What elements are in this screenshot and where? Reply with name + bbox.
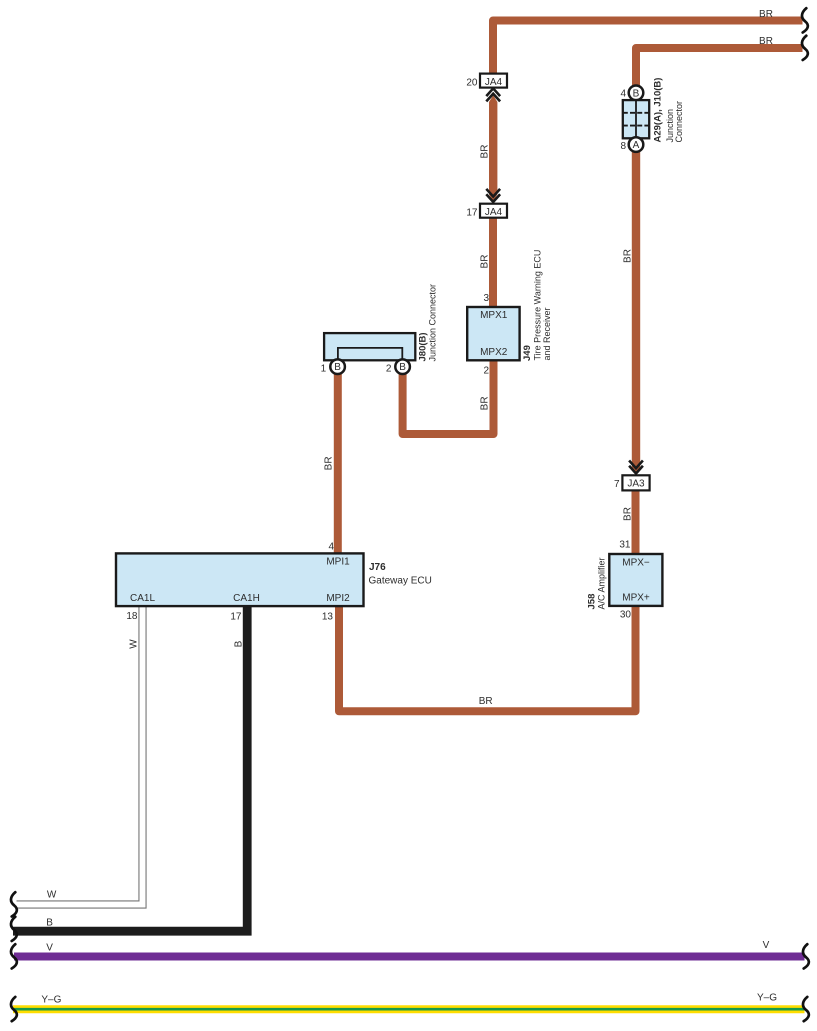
svg-text:BR: BR (759, 9, 773, 20)
svg-text:A29(A), J10(B): A29(A), J10(B) (653, 78, 664, 143)
svg-text:31: 31 (619, 540, 631, 551)
svg-text:4: 4 (328, 542, 334, 553)
svg-text:B: B (233, 640, 244, 647)
svg-text:7: 7 (614, 479, 620, 490)
svg-text:Connector: Connector (674, 101, 684, 143)
wire BR from JA4-17 to J49 pin 3 (489, 216, 497, 308)
break symbol right V (803, 944, 809, 968)
svg-text:CA1L: CA1L (130, 593, 155, 604)
svg-text:W: W (47, 890, 57, 901)
svg-text:JA3: JA3 (627, 479, 645, 490)
svg-text:18: 18 (126, 611, 138, 622)
svg-text:1: 1 (321, 363, 327, 374)
svg-text:Gateway ECU: Gateway ECU (369, 576, 432, 587)
terminal 1 circled B (330, 359, 345, 374)
svg-text:Tire Pressure Warning ECU: Tire Pressure Warning ECU (533, 250, 543, 361)
svg-text:B: B (633, 88, 640, 99)
svg-text:V: V (763, 940, 770, 951)
svg-text:J76: J76 (369, 562, 386, 573)
wire Y-G horizontal across page (13, 1005, 805, 1013)
wire BR top B (horizontal to right edge, corner down to A29 circled B) (636, 48, 803, 88)
svg-text:B: B (46, 917, 53, 928)
svg-text:Y–G: Y–G (757, 993, 777, 1004)
svg-text:20: 20 (466, 78, 478, 89)
arrow down (into JA3) (629, 461, 643, 474)
wire BR from JA3 to J58 pin 31 (632, 488, 640, 555)
svg-text:13: 13 (322, 612, 334, 623)
svg-text:3: 3 (483, 293, 489, 304)
svg-text:4: 4 (620, 89, 626, 100)
terminal circled B pin 4 (629, 86, 644, 101)
arrow down (into JA4-17) (486, 189, 500, 202)
wire BR from J76 pin 13 down, right, up to J58 pin 30 (339, 605, 636, 711)
svg-text:Junction Connector: Junction Connector (427, 284, 437, 362)
svg-text:30: 30 (620, 610, 632, 621)
svg-text:MPX2: MPX2 (480, 347, 508, 358)
svg-text:Y–G: Y–G (41, 995, 61, 1006)
connector JA3 pin 7 (614, 475, 650, 490)
wire BR from J80 terminal 1 down to J76 pin 4 (334, 366, 342, 555)
svg-text:MPX−: MPX− (622, 558, 650, 569)
junction connector J80(B) (321, 284, 438, 374)
wire V horizontal across page (14, 953, 805, 961)
wire Y-G green stripe (13, 1008, 805, 1011)
svg-text:B: B (399, 362, 406, 373)
svg-text:A: A (633, 140, 640, 151)
svg-text:MPI2: MPI2 (326, 593, 350, 604)
svg-text:BR: BR (479, 396, 490, 410)
junction connector A29(A), J10(B) (620, 78, 684, 152)
wire BR top A (horizontal to right edge, corner down to JA4-20) (493, 21, 803, 75)
break symbol left Y-G (11, 997, 17, 1021)
arrow up (into JA4-20) (486, 88, 500, 101)
svg-text:JA4: JA4 (485, 207, 503, 218)
svg-text:2: 2 (483, 365, 489, 376)
svg-text:B: B (334, 362, 341, 373)
wire W from J76 pin 18 down and left to edge (hollow white wire) (17, 605, 143, 905)
terminal 2 circled B (395, 359, 410, 374)
svg-text:J49: J49 (522, 345, 533, 361)
svg-text:17: 17 (466, 208, 478, 219)
svg-text:BR: BR (479, 255, 490, 269)
svg-text:17: 17 (230, 612, 242, 623)
svg-text:CA1H: CA1H (233, 593, 260, 604)
wire BR from J49 pin 2 down, left, up to J80 terminal 2 (403, 359, 494, 434)
ECU J49 Tire Pressure Warning ECU and Receiver (467, 250, 552, 377)
wire B from J76 pin 17 down and left to edge (13, 605, 247, 931)
break symbol left B (11, 917, 17, 941)
svg-text:2: 2 (386, 363, 392, 374)
break symbol top right A (802, 8, 808, 32)
svg-text:V: V (46, 942, 53, 953)
terminal circled A pin 8 (629, 137, 644, 152)
ECU J58 A/C Amplifier (587, 540, 663, 621)
connector JA4 pin 20 (466, 74, 507, 89)
wire BR between JA4-20 arrow and JA4-17 arrow (pointed both ends) (489, 95, 497, 201)
svg-text:BR: BR (479, 696, 493, 707)
svg-text:8: 8 (620, 141, 626, 152)
grid body A29 (623, 100, 649, 138)
svg-text:BR: BR (759, 36, 773, 47)
svg-text:and Receiver: and Receiver (542, 307, 552, 360)
svg-text:W: W (129, 639, 140, 649)
svg-text:MPX+: MPX+ (622, 592, 650, 603)
connector JA4 pin 17 (466, 204, 507, 219)
wire BR from A29 circled A down to JA3 arrow (pointed bottom end) (632, 146, 640, 475)
svg-text:BR: BR (623, 249, 634, 263)
svg-text:JA4: JA4 (485, 77, 503, 88)
svg-text:MPX1: MPX1 (480, 310, 508, 321)
ECU J76 Gateway ECU (116, 542, 432, 623)
break symbol left W (11, 892, 17, 916)
break symbol left V (11, 944, 17, 968)
svg-text:BR: BR (623, 507, 634, 521)
internal bus bar J80 (338, 348, 402, 360)
svg-text:MPI1: MPI1 (326, 557, 350, 568)
break symbol top right B (802, 36, 808, 60)
svg-text:BR: BR (479, 145, 490, 159)
svg-text:BR: BR (324, 456, 335, 470)
svg-text:A/C Amplifier: A/C Amplifier (597, 557, 607, 609)
break symbol right Y-G (803, 997, 809, 1021)
